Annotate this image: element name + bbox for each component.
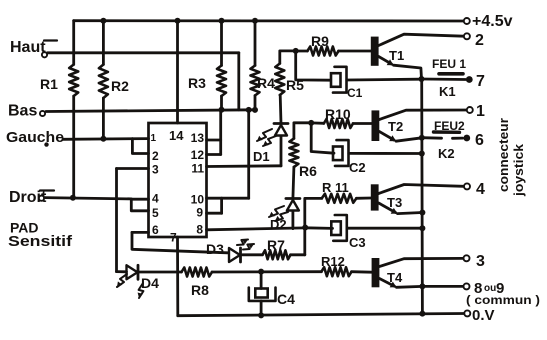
ic pin label 11 [191, 162, 204, 176]
junction Bas-R4 [252, 107, 258, 113]
wire R4 top [254, 21, 257, 66]
junction C3 [419, 225, 425, 231]
svg-text:6: 6 [475, 132, 484, 149]
label D4 [141, 275, 159, 291]
wire C1 left [296, 51, 331, 80]
resistor R12 [321, 267, 351, 276]
label 7 [476, 73, 485, 90]
wire R9 right [339, 50, 371, 53]
svg-text:joystick: joystick [511, 143, 526, 197]
k1 contact bar [439, 72, 463, 76]
resistor R5 [275, 64, 284, 96]
d1 arrows [257, 129, 276, 146]
t3 emitter wire [398, 213, 423, 214]
svg-text:T4: T4 [387, 270, 403, 285]
wire C2 left [311, 123, 334, 153]
label R8 [191, 282, 209, 298]
label connecteur [496, 118, 511, 192]
t1 emitter [379, 57, 394, 66]
label R9 [311, 33, 329, 49]
junction bus-R3 [219, 18, 225, 24]
svg-text:R3: R3 [188, 75, 206, 91]
junction Bas-R3 [219, 107, 225, 113]
label D1 [253, 149, 270, 164]
label C2 [349, 160, 366, 175]
svg-text:10: 10 [191, 193, 205, 207]
wire C3 col [303, 227, 306, 254]
ic pin label 1 [151, 133, 157, 144]
svg-text:R4: R4 [257, 75, 275, 91]
label T3 [387, 195, 402, 210]
wire top +4.5v bus [74, 19, 464, 22]
terminal 4 [464, 183, 470, 189]
wire pin10 stub [207, 197, 249, 200]
wire D1-R5 [279, 95, 283, 124]
ic pin label 9 [196, 206, 203, 220]
svg-text:connecteur: connecteur [496, 118, 511, 192]
terminal Haut [42, 52, 47, 57]
label R2 [111, 78, 129, 94]
svg-text:K2: K2 [438, 146, 455, 161]
junction C4 top [258, 269, 264, 275]
svg-text:11: 11 [191, 162, 204, 176]
svg-text:D3: D3 [206, 241, 224, 257]
svg-text:FEU 1: FEU 1 [432, 57, 466, 71]
label PAD [10, 220, 39, 236]
label commun [466, 293, 540, 307]
capacitor C3 [331, 215, 347, 241]
junction bus-R4 [252, 18, 258, 24]
IC U1 [149, 123, 207, 237]
svg-text:C2: C2 [349, 160, 366, 175]
label R12 [321, 254, 345, 269]
junction K1 [419, 76, 425, 82]
wire pin12 stub [207, 153, 221, 156]
resistor R1 [69, 65, 78, 97]
ic pin label 5 [152, 206, 159, 220]
wire R3 top [220, 21, 223, 66]
wire 0V rail [178, 314, 465, 316]
svg-text:4: 4 [152, 192, 159, 206]
wire pin9 stub [207, 212, 222, 215]
svg-text:2: 2 [475, 32, 484, 49]
label T2 [388, 119, 403, 134]
t2 collector [379, 110, 466, 120]
wire Haut [48, 51, 239, 54]
ic pin label 2 [152, 149, 159, 163]
label Haut [10, 39, 46, 56]
ic pin label 4 [152, 192, 159, 206]
label K1 [439, 84, 456, 99]
svg-text:R12: R12 [321, 254, 345, 269]
svg-text:C1: C1 [347, 86, 363, 100]
wire pin2 loop [132, 139, 148, 154]
label Droit [9, 189, 47, 206]
capacitor C2 [333, 140, 349, 166]
wire R2 bottom [102, 98, 105, 139]
label T1 [389, 48, 404, 63]
wire pin6 stub [132, 231, 149, 234]
wire pin8 [207, 228, 306, 230]
junction C2 [419, 151, 425, 157]
wire K2 b [453, 137, 463, 140]
label C3 [349, 235, 366, 250]
ic pin label 8 [196, 223, 203, 237]
wire D4-R8 [140, 271, 182, 274]
terminal +4.5v [464, 18, 470, 24]
wire R4 bottom [254, 96, 257, 110]
svg-text:Bas: Bas [8, 103, 37, 120]
t3 collector [379, 185, 464, 194]
svg-text:R9: R9 [311, 33, 329, 49]
label R7 [267, 237, 285, 253]
droit t-crossbar [40, 189, 54, 191]
label Bas [8, 103, 37, 120]
t1 collector [379, 34, 464, 45]
wire Droit [45, 198, 132, 199]
d3 arrows [237, 239, 254, 249]
wire R10 left [311, 122, 324, 125]
resistor R6 [289, 139, 298, 168]
resistor R4 [251, 66, 260, 96]
t4 collector [379, 258, 463, 266]
wire R7 right [291, 253, 305, 256]
label R5 [286, 77, 304, 93]
label D2 [270, 217, 287, 232]
wire R11 right [356, 197, 370, 200]
diode D3 [229, 248, 241, 262]
d4 arrows [117, 274, 143, 298]
wire Gauche [63, 137, 149, 140]
wire pin14 [176, 21, 179, 123]
ic pin label 14 [169, 128, 184, 143]
wire main vertical [420, 79, 423, 314]
junction C4 bottom [258, 312, 264, 318]
svg-text:1: 1 [151, 133, 157, 144]
wire pin7 down [176, 237, 179, 316]
ic pin label 13 [191, 131, 205, 145]
terminal Gauche [44, 142, 48, 146]
wire C3 right [347, 227, 422, 230]
svg-text:( commun ): ( commun ) [466, 293, 540, 307]
label R1 [40, 76, 58, 92]
svg-text:T3: T3 [387, 195, 402, 210]
label 4 [476, 181, 485, 198]
svg-text:2: 2 [152, 149, 159, 163]
ic pin label 3 [152, 163, 159, 177]
label 1 [476, 103, 485, 120]
junction T4 emitter [419, 283, 425, 289]
svg-text:12: 12 [191, 148, 205, 162]
svg-text:0.V: 0.V [472, 307, 495, 324]
svg-text:7: 7 [476, 73, 485, 90]
label FEU1 [432, 57, 466, 71]
t3 emitter [379, 203, 398, 214]
svg-text:FEU2: FEU2 [434, 119, 465, 133]
terminal 7 [466, 76, 473, 83]
t2 emitter wire [396, 138, 422, 141]
label 0V [472, 307, 495, 324]
svg-text:C3: C3 [349, 235, 366, 250]
svg-text:1: 1 [476, 103, 485, 120]
label D3 [206, 241, 224, 257]
wire pins12-13 up [219, 110, 222, 155]
svg-text:R10: R10 [325, 106, 351, 122]
svg-text:8: 8 [196, 223, 203, 237]
svg-text:R6: R6 [299, 163, 317, 179]
wire Bas [46, 110, 256, 112]
label C4 [277, 291, 295, 307]
wire pin6 down [132, 232, 228, 252]
junction Gauche-R2 [100, 136, 106, 142]
wire R6 top [294, 123, 311, 139]
svg-text:+4.5v: +4.5v [472, 13, 513, 30]
terminal 1 [467, 107, 473, 113]
svg-text:5: 5 [152, 206, 159, 220]
wire R11 bend [305, 198, 322, 227]
svg-text:3: 3 [476, 253, 485, 270]
wire pin4 stub [131, 198, 148, 201]
label 6 [475, 132, 484, 149]
label R4 [257, 75, 275, 91]
svg-text:T1: T1 [389, 48, 404, 63]
svg-text:6: 6 [152, 223, 159, 237]
wire R1 top [72, 21, 75, 65]
junction T3 emitter [419, 210, 425, 216]
terminal Bas [40, 111, 45, 116]
k2 contact bar [434, 130, 460, 134]
wire pin3 stub [117, 167, 149, 170]
wire C1 right [347, 78, 420, 82]
wire commun [422, 285, 463, 288]
label +4.5v [472, 13, 513, 30]
resistor R7 [263, 250, 291, 259]
label joystick [511, 143, 526, 197]
svg-text:R 11: R 11 [322, 180, 349, 195]
transistor T3 [371, 184, 379, 210]
transistor T2 [372, 110, 380, 141]
svg-text:C4: C4 [277, 291, 295, 307]
ic pin label 12 [191, 148, 205, 162]
wire pin3 down [115, 169, 118, 272]
t1 emitter wire [394, 65, 422, 79]
svg-text:Haut: Haut [10, 39, 46, 56]
svg-text:7: 7 [170, 231, 177, 245]
junction Droit-R1 [70, 195, 76, 201]
label R11 [322, 180, 349, 195]
svg-text:R2: R2 [111, 78, 129, 94]
wire D3-R7 [243, 253, 263, 256]
svg-text:3: 3 [152, 163, 159, 177]
t4 emitter wire [397, 285, 423, 289]
resistor R10 [324, 119, 353, 128]
wire C4 down [260, 301, 263, 316]
diode D2 [286, 199, 300, 229]
diode D1 [274, 124, 288, 166]
wire R2 top [102, 21, 105, 65]
svg-text:R1: R1 [40, 76, 58, 92]
wire R6-D2 [293, 167, 294, 199]
svg-text:9: 9 [196, 206, 203, 220]
wire K2 a [422, 136, 442, 139]
wire R3 bottom [220, 96, 223, 110]
wire pin10 up [247, 110, 250, 198]
label 3 [476, 253, 485, 270]
ic pin label 7 [170, 231, 177, 245]
label Sensitif [8, 233, 73, 250]
wire R9 left [296, 50, 308, 53]
terminal 6 [463, 135, 470, 142]
terminal Droit [39, 196, 44, 201]
label 2 [475, 32, 484, 49]
wire Haut down [237, 53, 240, 110]
wire K1 [422, 78, 466, 81]
svg-text:4: 4 [476, 181, 485, 198]
wire D4 left [117, 270, 127, 273]
wire C2 right [349, 152, 422, 155]
label FEU2 [434, 119, 465, 133]
wire R5 top [280, 51, 296, 64]
junction C3 node [302, 225, 308, 231]
label R10 [325, 106, 351, 122]
label C1 [347, 86, 363, 100]
haut t-crossbar [44, 39, 57, 41]
transistor T4 [372, 258, 380, 287]
resistor R8 [182, 268, 213, 277]
svg-text:Sensitif: Sensitif [8, 233, 73, 250]
wire R1 bottom [72, 96, 75, 198]
svg-text:D1: D1 [253, 149, 270, 164]
resistor R11 [322, 194, 357, 203]
terminal 2 [464, 33, 470, 39]
capacitor C1 [331, 67, 347, 93]
d2 arrows [269, 206, 288, 221]
terminal 3 [464, 255, 470, 261]
resistor R3 [217, 66, 226, 97]
svg-text:13: 13 [191, 131, 205, 145]
wire pin9 up [220, 198, 223, 213]
label Gauche [6, 129, 64, 146]
wire pin13 stub [207, 139, 221, 142]
label R3 [188, 75, 206, 91]
wire R10 right [353, 122, 372, 125]
svg-text:14: 14 [169, 128, 184, 143]
transistor T1 [371, 37, 379, 66]
svg-text:R7: R7 [267, 237, 285, 253]
wire R12 right [352, 270, 372, 273]
svg-text:K1: K1 [439, 84, 456, 99]
resistor R2 [99, 65, 108, 99]
junction bus-R2 [100, 18, 106, 24]
junction rail-vertical [419, 311, 425, 317]
label 8ou9 [474, 280, 504, 297]
t4 emitter [379, 279, 396, 288]
svg-text:T2: T2 [388, 119, 403, 134]
wire R8-R12 [212, 270, 321, 273]
capacitor C4 [249, 288, 276, 301]
label K2 [438, 146, 455, 161]
diode D4 [127, 265, 139, 279]
wire pin5 loop [131, 199, 148, 211]
terminal 8ou9 [464, 283, 470, 289]
junction R10 node [308, 120, 314, 126]
junction Bas-pin10 [246, 107, 252, 113]
wire C4 up [260, 272, 263, 289]
svg-text:Gauche: Gauche [6, 129, 64, 146]
svg-text:R8: R8 [191, 282, 209, 298]
wire C3 left [305, 226, 332, 229]
svg-text:D4: D4 [141, 275, 159, 291]
t2 emitter [379, 132, 396, 142]
resistor R9 [307, 47, 338, 56]
label T4 [387, 270, 403, 285]
junction R9 node [293, 48, 299, 54]
ic pin label 6 [152, 223, 159, 237]
label R6 [299, 163, 317, 179]
ic pin label 10 [191, 193, 205, 207]
junction bus-pin14 [175, 18, 181, 24]
terminal 0V [464, 310, 470, 316]
junction K2 [419, 135, 425, 141]
wire pin11 [207, 164, 282, 167]
